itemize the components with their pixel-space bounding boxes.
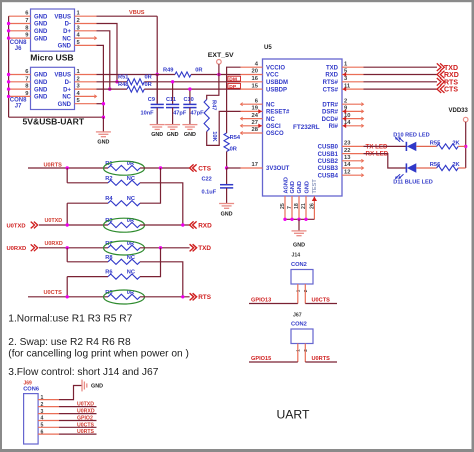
svg-text:10nF: 10nF: [141, 111, 155, 117]
wire J6 D- down: [97, 24, 118, 82]
svg-text:RXD: RXD: [198, 222, 212, 229]
svg-text:GND: GND: [304, 181, 310, 193]
svg-text:R2: R2: [105, 176, 112, 182]
svg-text:EXT_5V: EXT_5V: [208, 52, 235, 59]
svg-text:GND: GND: [293, 242, 305, 248]
node TXD junction: [159, 246, 162, 249]
svg-text:FT232RL: FT232RL: [293, 124, 320, 131]
wire USBDP row: [144, 88, 240, 90]
node RXD junction: [181, 223, 184, 226]
wire U0RTS J67: [305, 361, 337, 363]
svg-text:0R: 0R: [145, 82, 152, 88]
resistor R56 2K: [430, 162, 461, 171]
wire D11 to R56: [416, 167, 436, 169]
svg-text:R6: R6: [105, 270, 112, 276]
svg-text:TEST: TEST: [312, 179, 318, 194]
resistor R7 0R: [104, 241, 145, 255]
svg-text:U0CTS: U0CTS: [312, 298, 331, 304]
U5 bottom pin stubs: [285, 196, 317, 219]
svg-text:GND: GND: [34, 80, 48, 86]
wire J69 pin3 U0RXD: [59, 413, 97, 415]
svg-text:VBUS: VBUS: [129, 10, 145, 16]
svg-text:GND: GND: [34, 14, 48, 20]
svg-text:RTS: RTS: [198, 294, 212, 301]
svg-text:23: 23: [344, 141, 351, 147]
svg-text:GND: GND: [34, 36, 48, 42]
svg-text:17: 17: [252, 162, 258, 168]
wire R8 to RTS node: [140, 262, 183, 297]
U5 OSCI pin stub 27: [241, 124, 263, 129]
svg-text:NC: NC: [127, 255, 135, 261]
svg-text:VCCIO: VCCIO: [266, 65, 285, 71]
J69 pin numbers: [41, 395, 44, 436]
svg-text:NC: NC: [62, 95, 71, 101]
wire VDD33 down: [465, 122, 467, 168]
capacitor C11 47pF: [166, 80, 187, 124]
svg-text:13: 13: [344, 155, 351, 161]
svg-text:NC: NC: [127, 270, 135, 276]
wire J6 pin5 GND down: [97, 45, 104, 117]
svg-text:0R: 0R: [145, 75, 152, 81]
wire R6 to TXD node vertical: [140, 248, 161, 277]
svg-text:GND: GND: [184, 132, 196, 138]
svg-text:C10: C10: [184, 97, 194, 103]
svg-text:0.1uF: 0.1uF: [202, 190, 217, 196]
svg-text:15: 15: [252, 83, 259, 89]
svg-text:USBDP: USBDP: [266, 87, 287, 93]
wire J69 pin2 U0TXD: [59, 406, 97, 408]
svg-text:24: 24: [252, 113, 259, 119]
port RTS: [437, 78, 459, 86]
svg-text:OSCI: OSCI: [266, 124, 281, 130]
svg-text:J67: J67: [293, 313, 302, 319]
net alias DM: [228, 76, 241, 82]
capacitor C10 47pF: [183, 87, 204, 124]
power port VDD33: [449, 108, 469, 122]
wire R6 left vertical to U0CTS: [66, 277, 68, 297]
svg-text:47pF: 47pF: [191, 111, 205, 117]
svg-text:J7: J7: [15, 103, 22, 109]
wire J69 pin1 to GND: [59, 386, 82, 400]
svg-text:R56: R56: [430, 162, 440, 168]
svg-text:U0RXD: U0RXD: [77, 409, 95, 415]
wire U0RTS to R2 vertical: [66, 168, 68, 183]
svg-text:CTS: CTS: [444, 87, 458, 94]
junction dots J7 GND bus: [7, 73, 10, 76]
svg-text:19: 19: [252, 106, 259, 112]
connector J14 CON2: [291, 253, 313, 293]
svg-text:CUSB0: CUSB0: [318, 145, 339, 151]
U5 NC pin stub 6: [241, 103, 263, 106]
wire left GND bus horizontal: [9, 116, 104, 118]
wire VCCIO to R54: [227, 67, 241, 133]
wire chip ground bus: [285, 218, 314, 220]
svg-text:GND: GND: [58, 44, 72, 50]
border frame: [0, 0, 474, 2]
svg-text:OSCO: OSCO: [266, 131, 284, 137]
svg-text:VDD33: VDD33: [449, 108, 469, 114]
wire R4 row left: [67, 202, 108, 204]
resistor R54 0R: [224, 133, 241, 152]
svg-text:J6: J6: [15, 46, 22, 52]
port U0TXD: [7, 222, 38, 230]
wire J69 pin4 GPIO2: [59, 420, 97, 422]
node U0RTS junction: [66, 166, 69, 169]
svg-text:D11 BLUE LED: D11 BLUE LED: [393, 179, 432, 185]
svg-text:CON6: CON6: [23, 387, 39, 393]
U5 DTR# pin stub 2: [342, 103, 364, 106]
svg-text:CON2: CON2: [291, 322, 307, 328]
node D+ junction: [108, 87, 111, 90]
svg-text:GPIO15: GPIO15: [251, 356, 271, 362]
wire U0RTS row: [28, 167, 108, 169]
wire R1 to CTS port: [140, 167, 190, 169]
svg-text:GND: GND: [91, 384, 103, 390]
wire RTS: [364, 81, 438, 83]
resistor R5 0R: [104, 290, 145, 304]
wire CTS: [364, 88, 438, 90]
U5 DSR# pin stub 9: [342, 109, 364, 114]
svg-text:NC: NC: [62, 36, 71, 42]
wire D+ row to R48: [97, 88, 128, 90]
wire left GND bus vertical: [8, 16, 10, 117]
svg-text:0R: 0R: [230, 146, 237, 152]
svg-text:C22: C22: [202, 177, 212, 183]
svg-text:USBDM: USBDM: [266, 80, 288, 86]
connector J7 Micro USB (CON8): [10, 67, 81, 109]
node U0TXD junction: [66, 223, 69, 226]
wire CUSB1 down to D11: [364, 154, 407, 168]
wire U0RXD to R8 vertical: [66, 248, 68, 262]
wire VBUS from J6 pin1: [97, 15, 158, 17]
resistor R2 NC: [105, 176, 140, 186]
svg-text:U0RTS: U0RTS: [312, 356, 331, 362]
U5 CUSB1 pin stub: [342, 153, 364, 155]
junction dots ground bus: [283, 218, 286, 221]
svg-text:GND: GND: [297, 181, 303, 193]
svg-text:D+: D+: [63, 29, 71, 35]
U5 RI# pin stub 14: [342, 124, 364, 129]
svg-text:NC: NC: [266, 102, 275, 108]
wire J69 pin6 U0RTS: [59, 433, 97, 435]
capacitor C22 0.1uF: [202, 168, 234, 204]
U5 RESET# input marker: [258, 109, 262, 114]
svg-text:GPIO2: GPIO2: [77, 416, 93, 422]
svg-text:RI#: RI#: [329, 124, 339, 130]
port RTS left: [190, 293, 212, 301]
svg-text:J69: J69: [24, 380, 33, 386]
svg-text:U0TXD: U0TXD: [7, 223, 26, 229]
svg-text:20: 20: [252, 69, 258, 75]
svg-text:28: 28: [252, 127, 259, 133]
U5 right pin names: [318, 65, 339, 179]
svg-text:1.Normal:use R1 R3 R5 R7: 1.Normal:use R1 R3 R5 R7: [8, 314, 132, 325]
port CTS left: [190, 164, 212, 172]
resistor R51 0R: [118, 75, 152, 85]
svg-text:CON2: CON2: [291, 262, 307, 268]
svg-text:TXD: TXD: [326, 65, 339, 71]
svg-text:2K: 2K: [452, 140, 460, 146]
diode D11 BLUE LED: [393, 163, 432, 185]
wire 3V3OUT row: [227, 167, 241, 169]
svg-text:DCD#: DCD#: [322, 117, 339, 123]
net alias DP: [228, 83, 241, 89]
svg-text:2: 2: [344, 98, 347, 104]
svg-text:0R: 0R: [195, 67, 202, 73]
wire GPIO13: [249, 303, 298, 305]
U5 left pin names: [266, 65, 290, 172]
wire R8 row left: [67, 261, 108, 263]
svg-text:U0CTS: U0CTS: [44, 290, 63, 296]
svg-text:RESET#: RESET#: [266, 110, 290, 116]
svg-text:D-: D-: [65, 80, 71, 86]
svg-text:5V&USB-UART: 5V&USB-UART: [23, 117, 85, 127]
svg-text:U0TXD: U0TXD: [45, 218, 63, 224]
node R55 junction: [464, 145, 467, 148]
svg-text:D+: D+: [63, 87, 71, 93]
ground J69 (rotated): [82, 380, 103, 392]
wire R3 to RXD port: [140, 224, 190, 226]
svg-text:TXD: TXD: [444, 65, 458, 72]
svg-text:U5: U5: [264, 45, 272, 51]
U5 CUSB2 pin stub 13: [342, 159, 364, 162]
svg-text:R48: R48: [118, 82, 128, 88]
svg-text:R55: R55: [430, 140, 440, 146]
wire U0RXD row: [39, 247, 108, 249]
resistor R4 NC: [105, 196, 140, 206]
wire U0TXD row: [39, 224, 108, 226]
svg-text:16: 16: [252, 76, 259, 82]
ground symbol left USB GND: [96, 132, 111, 146]
U5 bottom pin names: [283, 177, 318, 193]
U5 left pin numbers: [252, 61, 259, 168]
wire EXT_5V down to R47: [207, 75, 219, 100]
port CTS: [437, 85, 458, 93]
svg-text:U0RTS: U0RTS: [77, 429, 95, 435]
svg-text:R8: R8: [105, 255, 112, 261]
U5 OSCO pin stub 28: [241, 131, 263, 134]
svg-text:R54: R54: [230, 135, 241, 141]
svg-text:GND: GND: [167, 132, 179, 138]
ground C11: [165, 125, 180, 138]
wire VBUS vertical down: [156, 16, 158, 104]
node U0CTS junction: [66, 295, 69, 298]
wire USBDM row: [144, 81, 240, 83]
wire R2 row left: [67, 182, 108, 184]
svg-text:U0RXD: U0RXD: [7, 246, 27, 252]
svg-text:D10 RED LED: D10 RED LED: [393, 132, 429, 138]
svg-text:(for cancelling log print when: (for cancelling log print when power on …: [8, 348, 189, 359]
svg-text:C11: C11: [166, 97, 176, 103]
resistor R8 NC: [105, 255, 140, 265]
svg-text:DM: DM: [229, 77, 237, 83]
svg-text:R4: R4: [105, 196, 113, 202]
svg-text:RTS#: RTS#: [323, 80, 339, 86]
svg-text:CUSB2: CUSB2: [318, 159, 339, 165]
wire R2 to RXD node: [140, 183, 183, 225]
wire CUSB0 to D10: [364, 145, 407, 147]
svg-text:GND: GND: [58, 102, 72, 108]
svg-text:AGND: AGND: [283, 177, 289, 193]
port U0RXD: [7, 244, 38, 252]
port TXD left: [190, 244, 212, 252]
wire R54 to 3V3OUT node: [226, 152, 228, 169]
svg-text:CUSB1: CUSB1: [318, 152, 339, 158]
wire ground bus stem: [298, 219, 300, 231]
wire VCC row J7-VBUS to R49: [97, 74, 176, 76]
resistor R47 10K: [204, 100, 217, 143]
svg-text:VBUS: VBUS: [54, 14, 71, 20]
svg-text:NC: NC: [127, 176, 135, 182]
svg-text:CTS: CTS: [198, 165, 212, 172]
svg-text:GND: GND: [97, 140, 109, 146]
J67 pin stubs: [298, 344, 306, 363]
wire U0CTS J14: [305, 303, 337, 305]
svg-text:R51: R51: [118, 75, 128, 81]
svg-text:R49: R49: [163, 67, 173, 73]
U5 DCD# pin stub 10: [342, 116, 364, 121]
svg-text:NC: NC: [127, 196, 135, 202]
connector J6 Micro USB (CON8): [10, 9, 81, 52]
wire R4 left vertical to U0TXD: [66, 203, 68, 225]
connector J67 CON2: [291, 313, 313, 352]
svg-text:GND: GND: [34, 29, 48, 35]
svg-text:DSR#: DSR#: [322, 110, 339, 116]
wire J7 pin5 GND: [97, 103, 104, 105]
svg-text:3V3OUT: 3V3OUT: [266, 166, 290, 172]
svg-text:GND: GND: [34, 73, 48, 79]
node EXT_5V-VCC junction: [217, 73, 220, 76]
svg-text:CUSB4: CUSB4: [318, 173, 339, 179]
svg-text:DTR#: DTR#: [322, 102, 338, 108]
wire R7 to TXD port: [140, 247, 190, 249]
resistor R1 0R: [104, 161, 145, 175]
svg-text:2K: 2K: [452, 162, 460, 168]
wire R6 row left: [67, 276, 108, 278]
svg-text:VCC: VCC: [266, 73, 279, 79]
ground C22: [219, 204, 234, 218]
U5 CUSB3 pin stub 14: [342, 166, 364, 169]
svg-text:D-: D-: [65, 22, 71, 28]
wire D- row to R51: [97, 81, 128, 83]
node CTS junction: [159, 166, 162, 169]
wire GPIO15: [249, 361, 298, 363]
wire VCC row R49 to chip: [191, 74, 241, 76]
diode D10 RED LED: [393, 132, 429, 151]
wire J6 D+ down: [97, 31, 110, 89]
wire U0CTS row: [28, 296, 108, 298]
svg-text:27: 27: [252, 120, 258, 126]
svg-text:10K: 10K: [211, 131, 217, 142]
wire R4 to CTS node vertical: [140, 168, 161, 203]
svg-text:47pF: 47pF: [173, 111, 187, 117]
wire R55 to VDD33: [458, 145, 466, 147]
svg-text:U0TXD: U0TXD: [77, 402, 94, 408]
wire J69 pin5 U0CTS: [59, 426, 97, 428]
svg-text:UART: UART: [277, 407, 311, 421]
port RXD: [437, 71, 459, 79]
svg-text:GND: GND: [34, 22, 48, 28]
svg-text:VBUS: VBUS: [54, 73, 71, 79]
wire R5 to RTS port: [140, 296, 190, 298]
node J7 GND junction: [102, 102, 105, 105]
U5 bottom pin numbers: [280, 203, 315, 209]
ground C9: [150, 125, 165, 138]
svg-text:TXD: TXD: [198, 245, 211, 252]
power port EXT_5V: [208, 52, 235, 75]
resistor R48 0R: [118, 82, 152, 92]
node D- junction: [115, 80, 118, 83]
J6 pin stubs: [9, 16, 97, 45]
op-amp U5 FT232RL chip body: [263, 45, 343, 196]
svg-text:NC: NC: [266, 117, 275, 123]
connector J69 CON6: [23, 380, 39, 444]
svg-text:RXD: RXD: [325, 73, 338, 79]
J14 pin stubs: [298, 284, 306, 304]
wire GND stem: [102, 117, 104, 132]
port TXD: [437, 63, 458, 71]
ground chip GND: [292, 231, 307, 249]
svg-text:Micro USB: Micro USB: [30, 52, 73, 62]
svg-text:CUSB3: CUSB3: [318, 166, 339, 172]
svg-text:C9: C9: [148, 97, 155, 103]
wire R47 to RESET#: [207, 111, 241, 145]
svg-text:DP: DP: [229, 84, 237, 90]
resistor R3 0R: [104, 218, 145, 232]
svg-text:R47: R47: [211, 100, 217, 110]
svg-text:U0CTS: U0CTS: [77, 422, 95, 428]
svg-text:3.Flow control: short J14 and: 3.Flow control: short J14 and J67: [8, 367, 158, 378]
svg-text:GND: GND: [290, 181, 296, 193]
node 3V3OUT junction: [225, 166, 228, 169]
resistor R6 NC: [105, 270, 140, 280]
ground C10: [182, 125, 197, 138]
svg-text:2. Swap: use R2 R4 R6 R8: 2. Swap: use R2 R4 R6 R8: [8, 337, 131, 348]
svg-text:14: 14: [344, 162, 351, 168]
svg-text:12: 12: [344, 169, 350, 175]
node VBUS-VCC junction: [156, 73, 159, 76]
U5 NC pin stub 24: [241, 117, 263, 120]
svg-text:RXD: RXD: [444, 72, 459, 79]
svg-text:GND: GND: [34, 87, 48, 93]
node RTS junction: [181, 295, 184, 298]
svg-text:RTS: RTS: [444, 79, 458, 86]
port RXD left: [190, 221, 212, 229]
wire R56 to VDD33: [458, 167, 466, 169]
svg-text:GND: GND: [34, 95, 48, 101]
U5 right pin numbers: [344, 61, 351, 175]
svg-text:22: 22: [344, 148, 350, 154]
svg-text:GND: GND: [221, 211, 233, 217]
svg-text:GND: GND: [151, 132, 163, 138]
U5 CUSB0 pin stub: [342, 145, 364, 147]
svg-text:GPIO13: GPIO13: [251, 298, 271, 304]
svg-text:U0RXD: U0RXD: [45, 241, 63, 247]
node U0RXD junction: [66, 246, 69, 249]
J69 pin stubs: [38, 400, 59, 435]
resistor R55 2K: [430, 140, 461, 149]
junction dots J6 GND bus: [7, 22, 10, 25]
U5 right pin stubs TXD RXD RTS CTS: [342, 67, 364, 91]
wire TXD: [364, 66, 438, 68]
svg-text:CTS#: CTS#: [323, 87, 339, 93]
J7 pin stubs: [9, 75, 97, 104]
svg-text:J14: J14: [292, 253, 301, 259]
wire D10 to R55: [416, 145, 436, 147]
resistor R49 0R: [163, 67, 202, 77]
U5 left pin stubs: [241, 67, 263, 168]
capacitor C9 10nF: [141, 75, 164, 125]
